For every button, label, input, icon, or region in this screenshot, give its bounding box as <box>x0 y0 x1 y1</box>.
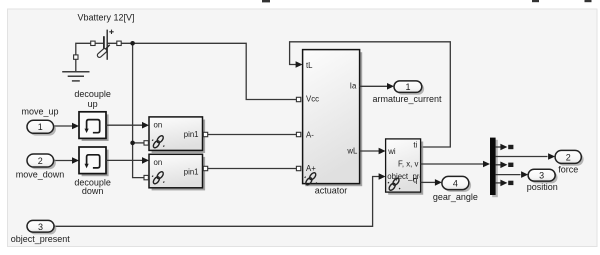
wire: inport 2 to decouple down <box>54 160 73 162</box>
block decouple down <box>82 150 109 177</box>
block decouple up <box>82 114 109 141</box>
port: on block B left square <box>144 175 148 179</box>
wire: actuator Ia to armature_current <box>360 85 388 87</box>
svg-text:position: position <box>527 182 558 192</box>
wire: bus row 3 to terminator <box>496 164 501 166</box>
svg-text:move_up: move_up <box>21 106 58 116</box>
svg-text:object_present: object_present <box>11 234 71 244</box>
svg-text:tL: tL <box>306 61 313 70</box>
ground <box>62 72 89 81</box>
wire: bus row 2 to force <box>496 156 548 158</box>
cropped toolbar glyph 3 <box>585 0 592 2</box>
svg-text:pin1: pin1 <box>184 130 199 139</box>
inport 3 object_present <box>29 223 56 235</box>
block on/pin1 A <box>152 120 206 154</box>
svg-text:up: up <box>88 99 98 109</box>
cropped toolbar glyph 1 <box>262 0 270 2</box>
svg-text:force: force <box>558 165 578 175</box>
node: battery junction <box>130 41 135 46</box>
wire: pin1 A to actuator A- <box>208 134 297 136</box>
svg-text:pin1: pin1 <box>184 167 199 176</box>
wire: actuator wL to F,x,v wi <box>360 150 379 152</box>
wire: decouple up to on block A <box>106 124 143 126</box>
battery Vbattery <box>97 30 114 60</box>
svg-text:on: on <box>154 158 163 167</box>
wire: battery left terminal segment <box>95 42 103 44</box>
wire: ground to battery left terminal <box>76 43 91 71</box>
svg-text:2: 2 <box>38 156 43 166</box>
block F,x,v <box>388 142 423 195</box>
svg-text:wL: wL <box>346 147 358 156</box>
outport 3 position <box>530 172 557 184</box>
bus selector bar <box>492 140 498 197</box>
port: Vcc square <box>296 97 300 101</box>
wire: feedback ti to tL <box>290 42 451 147</box>
port: battery left <box>91 41 95 45</box>
svg-text:Vbattery 12[V]: Vbattery 12[V] <box>77 13 134 23</box>
svg-text:1: 1 <box>405 82 410 92</box>
svg-text:A-: A- <box>306 130 314 139</box>
svg-text:Ia: Ia <box>350 82 357 91</box>
wire: bus row 5 to terminator <box>496 182 501 184</box>
wire: decouple down to on block B <box>106 159 143 161</box>
svg-text:1: 1 <box>38 122 43 132</box>
svg-text:4: 4 <box>453 179 458 189</box>
wire: bus row 1 to terminator <box>496 146 501 148</box>
port: on block A left square <box>144 141 148 145</box>
port: actuator A+ square <box>296 166 300 170</box>
inport 1 move_up <box>29 123 56 136</box>
outport 1 armature_current <box>396 83 424 95</box>
outport 2 force <box>557 153 583 166</box>
svg-text:A+: A+ <box>306 164 316 173</box>
block actuator <box>305 52 362 186</box>
svg-text:Vcc: Vcc <box>306 95 319 104</box>
svg-text:F, x, v: F, x, v <box>398 160 418 169</box>
cropped toolbar glyph 2 <box>532 0 539 2</box>
wire: branch to on block A port <box>133 142 144 144</box>
wire: battery right terminal to junction and Vcc <box>108 43 297 99</box>
svg-text:armature_current: armature_current <box>372 94 442 104</box>
port: actuator A- square <box>296 132 300 136</box>
svg-text:3: 3 <box>539 171 544 181</box>
svg-text:actuator: actuator <box>315 186 348 196</box>
port: battery right <box>117 41 121 45</box>
svg-text:2: 2 <box>566 152 571 162</box>
wire: F,x,v output to bus bar <box>421 163 484 165</box>
svg-text:wi: wi <box>387 147 396 156</box>
svg-text:ti: ti <box>413 140 417 149</box>
svg-text:decouple: decouple <box>74 89 111 99</box>
svg-text:move_down: move_down <box>16 170 65 180</box>
port: ground terminal <box>74 55 78 59</box>
port: on block B pin1 square <box>203 166 207 170</box>
wire: bus row 4 to position <box>496 174 521 176</box>
svg-text:gear_angle: gear_angle <box>433 192 478 202</box>
wire: inport 1 to decouple up <box>54 125 73 127</box>
port: on block A pin1 square <box>203 132 207 136</box>
inport 2 move_down <box>29 156 56 169</box>
svg-text:down: down <box>82 186 104 196</box>
svg-text:on: on <box>154 121 163 130</box>
wire: battery junction down to pin blocks <box>133 43 144 177</box>
outport 4 gear_angle <box>444 179 471 192</box>
wire: object_present inport to F,x,v <box>54 177 379 227</box>
block on/pin1 B <box>152 157 206 191</box>
wire: F,x,v q to gear_angle <box>421 181 436 183</box>
node: pin feed junction <box>130 141 135 146</box>
wire: pin1 B to actuator A+ <box>208 168 297 170</box>
svg-text:q: q <box>413 176 417 185</box>
svg-text:3: 3 <box>38 222 43 232</box>
